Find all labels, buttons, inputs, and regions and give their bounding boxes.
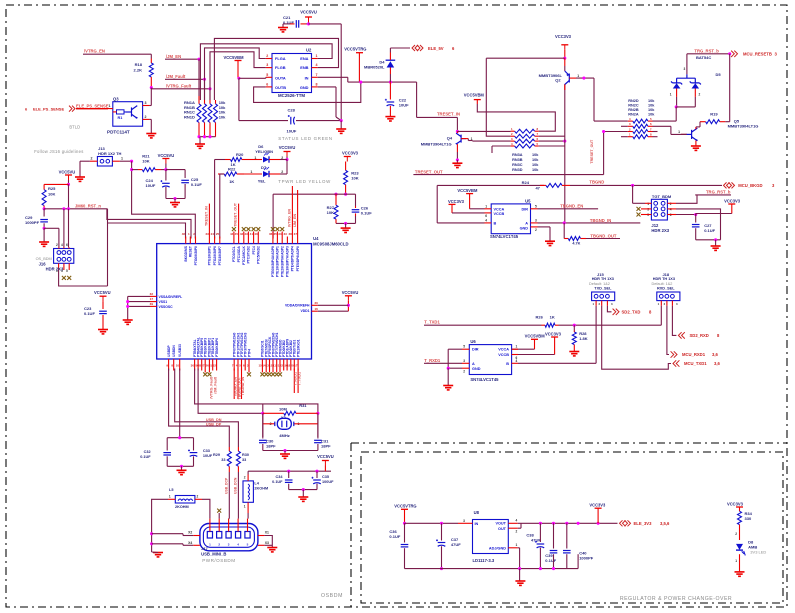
svg-text:41: 41 xyxy=(250,232,254,236)
net TRESET_OUT stub at chip xyxy=(238,204,240,237)
J16 bottom pin stubs xyxy=(58,263,60,267)
svg-text:VCC3V3: VCC3V3 xyxy=(448,199,465,204)
svg-text:HDR 1X2 TH: HDR 1X2 TH xyxy=(98,151,121,156)
svg-text:R26: R26 xyxy=(536,314,544,319)
svg-text:PTB0/KBIP0: PTB0/KBIP0 xyxy=(215,338,219,357)
svg-text:32: 32 xyxy=(213,364,217,368)
svg-text:39: 39 xyxy=(150,302,154,306)
svg-text:3: 3 xyxy=(463,519,465,523)
svg-text:1: 1 xyxy=(169,495,171,499)
svg-text:35: 35 xyxy=(273,232,277,236)
off-page MCU_RESETB xyxy=(731,51,737,57)
svg-text:10K: 10K xyxy=(142,159,149,164)
svg-text:3: 3 xyxy=(684,67,686,71)
svg-text:1: 1 xyxy=(577,74,579,78)
U8 pin2 jog xyxy=(518,522,521,524)
svg-text:Follow JS16 guidelines: Follow JS16 guidelines xyxy=(34,149,83,154)
junction R23 node xyxy=(344,193,347,196)
svg-text:3,6: 3,6 xyxy=(714,361,720,366)
wire D4 to ELE_5V xyxy=(389,48,391,53)
svg-text:ADJ/GND: ADJ/GND xyxy=(489,547,506,551)
svg-text:4: 4 xyxy=(485,218,487,222)
svg-text:PWR/OSBDM: PWR/OSBDM xyxy=(202,558,235,563)
J12 left stubs xyxy=(645,202,651,204)
svg-text:10UF: 10UF xyxy=(146,183,156,188)
svg-text:MCU_RESETB: MCU_RESETB xyxy=(743,51,772,56)
D5 anode stubs xyxy=(676,89,678,97)
svg-text:0.1UF: 0.1UF xyxy=(84,311,95,316)
ground C24 C25 xyxy=(170,203,180,207)
wire J12 pin4 down xyxy=(676,209,721,240)
Q3 pin 2 xyxy=(143,118,150,120)
ground Q3 xyxy=(146,134,156,138)
svg-text:23: 23 xyxy=(205,232,209,236)
svg-text:C32: C32 xyxy=(144,450,151,454)
svg-text:38: 38 xyxy=(288,232,292,236)
svg-text:Default: 1&2: Default: 1&2 xyxy=(652,282,673,286)
svg-text:1: 1 xyxy=(244,505,246,509)
svg-text:Default: 1&2: Default: 1&2 xyxy=(589,282,610,286)
svg-text:VCCA: VCCA xyxy=(494,207,505,211)
wire J18 pin3 to SD2_RXD xyxy=(672,306,676,336)
svg-text:3V3 LED: 3V3 LED xyxy=(750,550,766,555)
svg-text:2: 2 xyxy=(197,495,199,499)
svg-text:/JM_Fault: /JM_Fault xyxy=(213,376,217,393)
wire J13 node to chip pin3 xyxy=(132,161,196,238)
svg-text:X1: X1 xyxy=(265,531,269,535)
ground C28 rail xyxy=(340,121,342,129)
svg-text:1: 1 xyxy=(485,204,487,208)
ground C27 xyxy=(711,246,721,250)
svg-text:SD2_RXD: SD2_RXD xyxy=(690,333,709,338)
wire J16 col1 to chip BKGD xyxy=(59,268,108,287)
svg-text:LD1117-3.3: LD1117-3.3 xyxy=(473,558,495,563)
svg-text:1: 1 xyxy=(121,157,123,161)
svg-text:1: 1 xyxy=(56,269,58,273)
svg-text:1K: 1K xyxy=(229,179,234,184)
off-page MCU_TXD1 xyxy=(673,360,679,366)
wire TBGND down to J12 xyxy=(632,185,634,203)
svg-text:33: 33 xyxy=(242,458,246,462)
svg-text:/JM_EN: /JM_EN xyxy=(166,54,181,59)
svg-text:BAT54C: BAT54C xyxy=(696,55,711,60)
wire C29 gnd node xyxy=(44,227,59,229)
svg-text:2: 2 xyxy=(735,532,737,536)
Q4 emitter junction xyxy=(456,152,458,160)
svg-text:10k: 10k xyxy=(648,99,655,103)
svg-text:VCC5VBM: VCC5VBM xyxy=(464,93,485,98)
Q2 collector wire down xyxy=(564,85,566,91)
gnd rail C27 xyxy=(696,239,721,241)
power VCC5VU at R21 xyxy=(162,158,169,160)
svg-text:RN3A: RN3A xyxy=(512,153,523,157)
svg-text:2: 2 xyxy=(516,530,518,534)
svg-text:PDTC114T: PDTC114T xyxy=(107,130,130,135)
IC U8 LD1117-3.3 xyxy=(473,520,509,554)
bus wire L1 ENB loop xyxy=(214,38,338,100)
svg-text:YEL: YEL xyxy=(258,179,266,184)
no-connect J16 pins xyxy=(62,276,66,280)
svg-text:MCU_RXD1: MCU_RXD1 xyxy=(682,352,706,357)
svg-text:BTLD: BTLD xyxy=(69,125,80,130)
ground C29 xyxy=(39,242,49,246)
svg-text:0.1UF: 0.1UF xyxy=(545,558,556,563)
wire R19 right to TRG_RST xyxy=(725,121,729,123)
svg-text:5: 5 xyxy=(266,73,268,77)
svg-text:PTE1/KBIP5A/ADP1: PTE1/KBIP5A/ADP1 xyxy=(276,246,280,277)
svg-text:18PF: 18PF xyxy=(321,444,331,449)
svg-text:RN2D: RN2D xyxy=(628,99,639,103)
svg-text:VDD1: VDD1 xyxy=(300,309,309,313)
svg-text:RN1D: RN1D xyxy=(184,114,195,119)
svg-text:MCU_BKGD: MCU_BKGD xyxy=(738,183,762,188)
svg-text:USB_DCN: USB_DCN xyxy=(234,477,238,494)
svg-text:B: B xyxy=(506,362,509,366)
svg-text:10k: 10k xyxy=(532,163,539,167)
IC U6 SN74LVC1T45 xyxy=(469,345,511,375)
svg-text:37: 37 xyxy=(294,232,298,236)
svg-text:R24: R24 xyxy=(522,180,530,185)
svg-text:1: 1 xyxy=(109,104,111,108)
bus wire L3 FLGA loop xyxy=(205,48,266,100)
svg-text:VCC5VU: VCC5VU xyxy=(342,290,359,295)
svg-text:0.1UF: 0.1UF xyxy=(272,480,283,484)
svg-text:0.1UF: 0.1UF xyxy=(140,455,151,459)
svg-text:3: 3 xyxy=(535,218,537,222)
svg-text:16: 16 xyxy=(315,307,319,311)
svg-text:RN3C: RN3C xyxy=(512,163,523,167)
svg-text:T_RXD1: T_RXD1 xyxy=(424,358,441,363)
wire XTAL to crystal xyxy=(195,369,318,438)
svg-text:/VTRG_EN: /VTRG_EN xyxy=(84,49,105,54)
ground J13 xyxy=(75,177,85,181)
wire JM60_RST vertical xyxy=(107,209,109,286)
svg-text:OUT: OUT xyxy=(498,527,507,531)
svg-text:VCC3V3: VCC3V3 xyxy=(342,151,359,156)
svg-text:U2: U2 xyxy=(306,48,312,53)
svg-text:USB_MINI_B: USB_MINI_B xyxy=(201,551,226,556)
svg-text:VSSOSC: VSSOSC xyxy=(159,305,174,309)
svg-text:1000PF: 1000PF xyxy=(25,220,40,225)
svg-text:X4: X4 xyxy=(188,541,192,545)
svg-text:2: 2 xyxy=(699,92,701,96)
svg-text:D5: D5 xyxy=(716,72,722,77)
svg-text:3: 3 xyxy=(647,208,649,212)
svg-text:3: 3 xyxy=(463,359,465,363)
capacitor C23 0.1UF xyxy=(100,295,107,297)
svg-text:34: 34 xyxy=(278,232,282,236)
wire L5 left to gnd xyxy=(152,499,168,552)
net TBGND_OUT stub below chip xyxy=(237,369,239,400)
svg-text:USBDN: USBDN xyxy=(172,345,176,357)
ground C22 xyxy=(385,117,395,121)
svg-text:RN2A: RN2A xyxy=(628,112,639,116)
ground crystal xyxy=(280,454,290,458)
svg-text:MC9S08JM60CLD: MC9S08JM60CLD xyxy=(313,241,348,246)
svg-text:SD2_TXD: SD2_TXD xyxy=(622,310,641,315)
svg-text:VCC3V3: VCC3V3 xyxy=(545,331,562,336)
svg-text:VCC5VU: VCC5VU xyxy=(59,169,76,174)
svg-text:TPWR LED YELLOW: TPWR LED YELLOW xyxy=(278,179,331,184)
Q4 base wire to RN3 row3 xyxy=(468,140,472,142)
connector J12 HDR 2X3 xyxy=(651,199,667,220)
net USB_DCP stub xyxy=(228,472,230,513)
bus wire L2 ENA loop xyxy=(200,44,332,100)
gnd rail C34 C35 xyxy=(289,489,317,491)
RN3 right wires to Q2 collector net xyxy=(539,135,565,137)
no-connect J12 pins 3 5 xyxy=(637,207,641,211)
power VCC5VU at R25 xyxy=(65,174,72,176)
svg-text:GND: GND xyxy=(472,367,481,371)
svg-text:PTG3/KBIP7: PTG3/KBIP7 xyxy=(218,246,222,265)
Q3 pin 3 xyxy=(143,105,150,107)
svg-text:1.8K: 1.8K xyxy=(579,336,588,341)
svg-text:TBGND_IN: TBGND_IN xyxy=(590,218,611,223)
IC U5 SN74LVC1T45 xyxy=(491,204,530,234)
svg-text:2: 2 xyxy=(145,115,147,119)
svg-text:DIR: DIR xyxy=(521,207,528,211)
svg-text:44: 44 xyxy=(230,232,234,236)
wire OUTA to VCC5VBM node xyxy=(239,77,266,79)
wire Q2 emitter net down to RN3 row2 xyxy=(486,58,510,136)
ground C21 xyxy=(282,24,284,27)
svg-text:PTE5/DP6/ADP0: PTE5/DP6/ADP0 xyxy=(296,246,300,271)
svg-text:OUTA: OUTA xyxy=(275,76,286,81)
svg-text:3,6: 3,6 xyxy=(712,352,718,357)
svg-text:U6: U6 xyxy=(470,339,476,344)
svg-text:1: 1 xyxy=(516,345,518,349)
svg-text:4: 4 xyxy=(61,243,63,247)
svg-text:PTG2/KBIP6: PTG2/KBIP6 xyxy=(213,246,217,265)
svg-text:10K: 10K xyxy=(327,210,334,215)
IC U2 MC2526-TTM xyxy=(272,54,312,93)
svg-text:J17: J17 xyxy=(201,546,208,551)
svg-text:2: 2 xyxy=(670,202,672,206)
ground J17 right xyxy=(267,548,277,552)
svg-text:5: 5 xyxy=(463,345,465,349)
svg-text:R21: R21 xyxy=(142,153,150,158)
svg-text:YEL/GRN: YEL/GRN xyxy=(255,149,273,154)
wire VCC down to J16 col3 xyxy=(68,184,70,208)
svg-text:OS_BDM: OS_BDM xyxy=(36,257,52,261)
svg-text:TGT_BDM: TGT_BDM xyxy=(652,194,672,199)
power VCC3V3 at R23 xyxy=(344,156,351,158)
wire BKGD to chip xyxy=(108,223,186,239)
svg-text:7: 7 xyxy=(316,73,318,77)
svg-text:R1: R1 xyxy=(118,116,123,120)
svg-text:100UF: 100UF xyxy=(322,480,334,484)
svg-text:5: 5 xyxy=(535,204,537,208)
svg-text:USBDP: USBDP xyxy=(167,345,171,357)
svg-text:PTC3/TxD2: PTC3/TxD2 xyxy=(247,246,251,264)
svg-text:10k: 10k xyxy=(219,114,226,119)
svg-text:4: 4 xyxy=(516,359,518,363)
svg-text:1: 1 xyxy=(735,559,737,563)
ground Q5 xyxy=(691,146,701,150)
svg-text:/VTRG_EN: /VTRG_EN xyxy=(288,209,292,227)
svg-text:DIR: DIR xyxy=(472,348,479,352)
U4 top pin stubs xyxy=(185,237,187,244)
svg-text:4: 4 xyxy=(670,208,672,212)
wire VCC to R25 xyxy=(44,183,68,185)
net /VTRG_EN stub at chip xyxy=(291,186,293,237)
wire OUTB to VCC5VTRG rail xyxy=(254,82,361,102)
svg-text:6: 6 xyxy=(670,213,672,217)
svg-text:FLGA: FLGA xyxy=(275,56,286,61)
svg-text:42: 42 xyxy=(240,232,244,236)
svg-text:2: 2 xyxy=(535,228,537,232)
VUSB33 wire to caps xyxy=(167,437,193,439)
svg-text:RN3B: RN3B xyxy=(512,158,523,162)
svg-text:PTC0/SCL: PTC0/SCL xyxy=(232,246,236,262)
svg-text:BKGD/MS: BKGD/MS xyxy=(184,245,188,261)
wire VTRG_EN to R18 xyxy=(150,54,152,58)
svg-text:MMBT3904LT1G: MMBT3904LT1G xyxy=(728,124,759,129)
svg-text:R18: R18 xyxy=(135,62,143,67)
svg-text:PTE0/KBIP4A/ADP9: PTE0/KBIP4A/ADP9 xyxy=(271,246,275,277)
off-page ELE_3V3 xyxy=(620,520,626,526)
svg-text:ENA: ENA xyxy=(300,56,308,61)
net TBGND_EN stub below chip xyxy=(233,369,235,400)
svg-text:L5: L5 xyxy=(169,488,173,492)
regulator output rail xyxy=(521,522,617,524)
svg-text:TBGND_OUT: TBGND_OUT xyxy=(590,233,616,238)
svg-text:VCCB: VCCB xyxy=(498,353,509,357)
svg-text:3: 3 xyxy=(61,269,63,273)
svg-text:VCC5VU: VCC5VU xyxy=(94,290,111,295)
svg-text:TBGND: TBGND xyxy=(589,179,604,184)
svg-text:/VTRG_Fault: /VTRG_Fault xyxy=(166,83,192,88)
svg-text:R30: R30 xyxy=(242,453,249,457)
svg-text:U8: U8 xyxy=(474,510,480,515)
RN3 row4 left stub wire xyxy=(492,145,511,147)
REGULATOR region dashed box xyxy=(361,452,783,603)
IC U4 MC9S08JM60CLD xyxy=(157,244,312,359)
svg-text:PTC1/SDA: PTC1/SDA xyxy=(237,245,241,262)
svg-text:GND: GND xyxy=(300,85,309,90)
svg-text:2.2K: 2.2K xyxy=(134,68,143,73)
RN1 bottom junction rail xyxy=(199,136,216,138)
svg-text:VCC3V3: VCC3V3 xyxy=(727,501,744,506)
svg-text:Y3: Y3 xyxy=(281,415,287,420)
J13 pin 2 xyxy=(90,160,98,162)
svg-text:PTG1/KBIP1: PTG1/KBIP1 xyxy=(208,246,212,265)
net T_RXD1 stub below chip xyxy=(293,369,295,394)
wires J17 data pins up xyxy=(228,513,230,519)
svg-text:U5: U5 xyxy=(525,198,531,203)
svg-text:R29: R29 xyxy=(213,453,220,457)
svg-text:46: 46 xyxy=(182,232,186,236)
svg-text:D7: D7 xyxy=(261,165,267,170)
U4 bottom pins xyxy=(168,359,170,371)
wire J13 pin2 to gnd xyxy=(80,160,90,162)
svg-text:47UF: 47UF xyxy=(451,542,461,547)
svg-text:Q3: Q3 xyxy=(113,97,119,102)
ground Q4 xyxy=(452,163,462,167)
svg-text:4.7K: 4.7K xyxy=(572,242,580,246)
svg-text:27: 27 xyxy=(201,364,205,368)
svg-text:OSBDM: OSBDM xyxy=(321,593,343,599)
svg-text:VCC5VBM: VCC5VBM xyxy=(525,334,546,339)
RN2 left wires xyxy=(594,120,628,122)
svg-text:10UF: 10UF xyxy=(287,129,297,134)
svg-text:1: 1 xyxy=(316,54,318,58)
rail end becomes TRESET_IN wire xyxy=(416,82,418,117)
wire D7 R22 to chip pin xyxy=(219,174,221,239)
svg-text:C34: C34 xyxy=(276,475,284,479)
svg-text:TRESET_OUT: TRESET_OUT xyxy=(234,202,238,227)
svg-text:2: 2 xyxy=(56,243,58,247)
svg-text:VCC5VU: VCC5VU xyxy=(158,153,175,158)
wire into Q2 emitter node xyxy=(486,57,565,59)
svg-text:MBR0520L: MBR0520L xyxy=(364,65,385,70)
svg-text:PTF4: PTF4 xyxy=(247,349,251,357)
U5 GND wire xyxy=(538,226,551,228)
svg-text:33: 33 xyxy=(221,458,225,462)
svg-text:PTC4: PTC4 xyxy=(252,246,256,255)
wire D6 R20 to chip pin xyxy=(214,160,216,239)
svg-text:R20: R20 xyxy=(236,152,244,157)
svg-text:33: 33 xyxy=(283,232,287,236)
svg-text:VCC3V3: VCC3V3 xyxy=(555,34,572,39)
svg-text:PTE1/RxD1: PTE1/RxD1 xyxy=(296,339,300,357)
RN2 right wires xyxy=(653,120,677,122)
svg-text:B: B xyxy=(494,222,497,226)
U2 right pins xyxy=(312,58,318,60)
wire J18 pin2 to MCU_RXD1 xyxy=(667,306,669,355)
off-page ELE_5V xyxy=(412,45,418,51)
svg-text:/JM_EN: /JM_EN xyxy=(293,214,297,227)
ground L5 xyxy=(153,553,163,557)
power rail VCC5VU usb xyxy=(247,471,249,474)
U6 pin stubs xyxy=(462,348,469,350)
svg-text:Q4: Q4 xyxy=(447,136,453,141)
svg-text:25: 25 xyxy=(216,232,220,236)
svg-text:3: 3 xyxy=(266,63,268,67)
svg-text:20: 20 xyxy=(315,301,319,305)
J13 pin 1 xyxy=(112,160,120,162)
svg-text:4MHz: 4MHz xyxy=(279,433,289,438)
junction R18 bottom xyxy=(150,86,153,89)
svg-text:10K: 10K xyxy=(48,191,55,196)
svg-text:U4: U4 xyxy=(313,236,319,241)
svg-text:1: 1 xyxy=(678,130,680,134)
svg-text:RN2C: RN2C xyxy=(628,103,639,107)
svg-text:VCCA: VCCA xyxy=(498,348,509,352)
net T_TXD1 stub below chip xyxy=(297,369,299,394)
svg-text:HDR TH 1X3: HDR TH 1X3 xyxy=(653,277,675,281)
svg-text:10k: 10k xyxy=(532,153,539,157)
svg-text:0.1UF: 0.1UF xyxy=(389,534,400,539)
svg-text:43: 43 xyxy=(244,232,248,236)
svg-text:VDDA/DVREFH: VDDA/DVREFH xyxy=(285,304,310,308)
svg-text:4: 4 xyxy=(316,63,318,67)
svg-text:X3: X3 xyxy=(265,541,269,545)
wire to C25 xyxy=(166,169,185,171)
svg-text:ELE_5V: ELE_5V xyxy=(428,46,444,51)
svg-text:VCC3V3: VCC3V3 xyxy=(589,502,606,507)
wire RESET to chip xyxy=(107,209,191,239)
svg-text:SN74LVC1T45: SN74LVC1T45 xyxy=(490,234,519,239)
svg-text:TRESET_IN: TRESET_IN xyxy=(204,206,208,226)
wire VCC5VU to U2 / C28 rail xyxy=(309,23,342,25)
svg-text:40: 40 xyxy=(254,232,258,236)
svg-text:47: 47 xyxy=(535,186,540,191)
svg-text:10K: 10K xyxy=(351,176,358,181)
U8 ADJ to gnd rail xyxy=(518,547,520,549)
wire Q2 collector down to TBGND_IN xyxy=(564,84,566,223)
ground C32 C33 xyxy=(177,470,187,474)
